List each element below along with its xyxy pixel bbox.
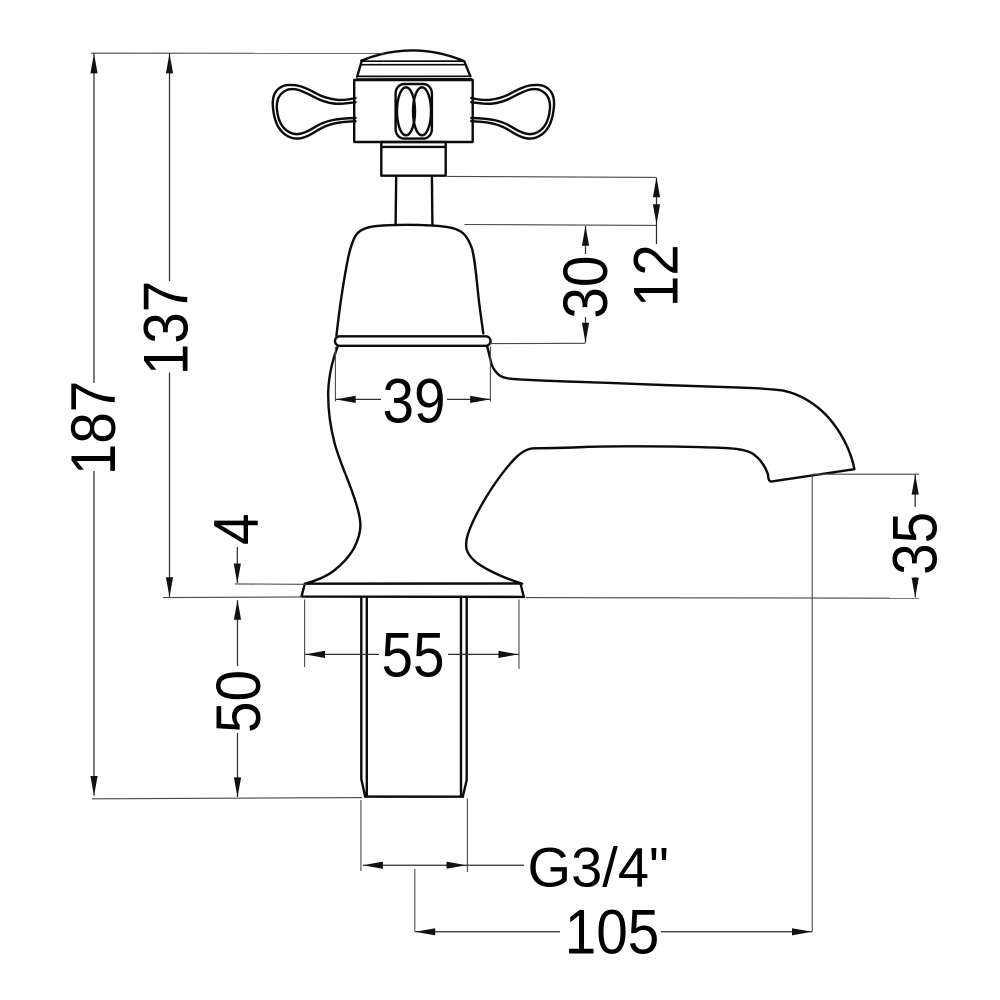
ext spout outlet vertical [811, 475, 813, 932]
arrow 50 bottom [234, 777, 241, 797]
body right + spout top edge [487, 346, 854, 469]
svg-text:12: 12 [621, 244, 691, 307]
ext plate bottom left [163, 596, 302, 599]
left arm outer [273, 85, 356, 139]
arrow 55 right [499, 651, 519, 658]
dim 55 line [305, 653, 379, 655]
arrow 12 bottom [653, 204, 660, 224]
ext tail left vertical [360, 800, 362, 871]
spindle right [431, 176, 434, 226]
dim 35 line [914, 475, 916, 507]
tail outer right [463, 597, 467, 797]
dim 30 line [585, 226, 587, 254]
handle cap rim top line [362, 60, 465, 62]
arrow G34 right [447, 862, 467, 869]
arrow 187 bottom [90, 776, 97, 796]
dim 12 line [656, 178, 658, 244]
ext bell top right [465, 224, 657, 227]
svg-text:39: 39 [382, 366, 445, 436]
ext top from dome [91, 52, 384, 54]
dim 137 line [169, 53, 171, 281]
spindle left [394, 176, 397, 226]
ext flange left vertical [334, 347, 336, 402]
arrow 39 right [470, 396, 490, 403]
arrow 4 down [234, 564, 241, 584]
handle dome arc [361, 50, 462, 60]
ext plate bottom right [526, 597, 919, 600]
collar flange [335, 336, 491, 346]
indice capsule [396, 84, 432, 139]
handle cap rim second line [361, 64, 465, 66]
tail bottom edge [365, 795, 463, 798]
arrow 187 top [90, 53, 97, 73]
base plate [302, 584, 524, 597]
ext housing bottom right [447, 176, 657, 177]
left arm inner contour [277, 89, 356, 134]
ext plate right vertical [518, 600, 520, 670]
tail outer left [361, 597, 365, 797]
arrow 39 left [336, 396, 356, 403]
handle hub block [354, 80, 473, 142]
dim G3/4 line [363, 864, 524, 866]
handle band lower line1 [357, 75, 470, 77]
gland housing [381, 142, 445, 176]
dim 105 line [415, 931, 560, 933]
right arm outer (mirror) [471, 85, 554, 139]
svg-text:35: 35 [880, 512, 950, 575]
handle cap right side [464, 61, 470, 76]
arrow 12 top [653, 177, 660, 197]
ext spout mouth right [812, 473, 919, 475]
arrow 35 top [912, 475, 919, 495]
svg-text:55: 55 [381, 620, 444, 690]
arrow 137 bottom [166, 577, 173, 597]
dim 4 leader [236, 547, 238, 583]
dim 39 line [336, 398, 381, 400]
ext plate top left [235, 583, 306, 585]
body left side below flange [305, 347, 360, 584]
arrow 30 top [582, 226, 589, 246]
arrow 105 right [792, 928, 812, 935]
svg-text:187: 187 [58, 381, 128, 476]
bonnet bell [336, 225, 483, 336]
ext tail right vertical [466, 799, 468, 873]
right arm inner contour [471, 89, 550, 134]
spout underside [466, 446, 768, 583]
arrow 50 top [234, 600, 241, 620]
svg-text:G3/4": G3/4" [528, 836, 669, 899]
svg-text:30: 30 [550, 256, 620, 319]
tail thread inner right [460, 597, 462, 797]
svg-text:105: 105 [565, 897, 660, 967]
svg-text:4: 4 [201, 513, 271, 545]
tail thread inner left [366, 597, 368, 797]
gland housing lip line [381, 146, 445, 148]
ext plate left vertical [304, 600, 306, 668]
ext tail bottom left [92, 798, 362, 799]
spout mouth line [768, 469, 854, 481]
dim 50 line [237, 600, 239, 666]
arrow 105 left [415, 928, 435, 935]
ext tail centre vertical [414, 869, 416, 932]
indice left ellipse [397, 87, 415, 135]
dim 187 line [93, 53, 95, 383]
arrow 30 bottom [582, 323, 589, 343]
handle band lower line2 [357, 78, 472, 81]
arrow 35 bottom [912, 578, 919, 598]
svg-text:50: 50 [203, 670, 273, 733]
ext flange right [491, 342, 586, 344]
arrow G34 left [363, 862, 383, 869]
arrow 55 left [305, 651, 325, 658]
ext flange right vertical [489, 347, 491, 402]
svg-text:137: 137 [131, 281, 201, 376]
handle cap left side [357, 61, 361, 76]
indice right ellipse [413, 87, 431, 135]
arrow 137 top [166, 53, 173, 73]
